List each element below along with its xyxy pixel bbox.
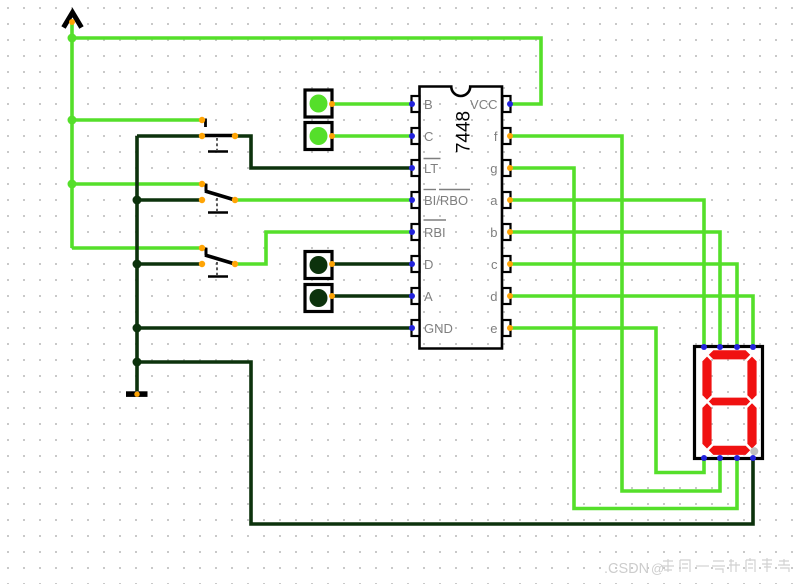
wire: net e from IC to display bottom pin 1 <box>511 328 704 473</box>
IC U1 pin box: pin c <box>503 256 511 272</box>
IC U1 pin box: pin b <box>503 224 511 240</box>
logic probe D (state 0) <box>305 252 335 279</box>
wire: probe C to pin C <box>332 134 410 138</box>
IC U1 pin label RBI with overline <box>424 220 447 240</box>
7-segment display DS1 body <box>695 347 763 459</box>
display segment a <box>709 350 750 359</box>
IC U1 pin state dot: D (blue) <box>409 261 415 267</box>
junction: power net at y=120 <box>68 116 77 125</box>
display pin dot bottom 3 <box>734 455 740 461</box>
IC U1 pin box: pin a <box>503 192 511 208</box>
svg-text:a: a <box>490 193 498 208</box>
svg-text:e: e <box>490 321 497 336</box>
IC U1 pin box: pin g <box>503 160 511 176</box>
logic probe A (state 0) <box>305 285 335 312</box>
IC U1 pin state dot: RBI (blue) <box>409 229 415 235</box>
svg-text:@: @ <box>651 561 664 576</box>
wire: SW2 pole to BI/RBO pin <box>235 198 410 202</box>
IC U1 pin state dot: A (blue) <box>409 293 415 299</box>
wire: ground net to SW2 bottom throw <box>137 198 202 202</box>
IC U1 value label 7448 (rotated) <box>454 111 475 153</box>
svg-text:B: B <box>424 97 433 112</box>
IC U1 pin box: pin D <box>412 256 420 272</box>
junction: ground net at SW2 <box>133 196 142 205</box>
IC U1 pin box: pin RBI <box>412 224 420 240</box>
watermark text CSDN <box>604 561 664 577</box>
IC U1 pin box: pin BI/RBO <box>412 192 420 208</box>
wire: power net vertical from arrow down left side <box>70 22 74 248</box>
wire: net b from IC to display top pin 2 <box>511 232 720 347</box>
display pin dot bottom 2 <box>717 455 723 461</box>
junction: power net at y=184 <box>68 180 77 189</box>
IC U1 pin state dot: BI/RBO (blue) <box>409 197 415 203</box>
svg-text:RBI: RBI <box>424 225 446 240</box>
svg-text:d: d <box>490 289 497 304</box>
wire: power net branch to SW2 top throw <box>72 182 202 186</box>
svg-text:VCC: VCC <box>470 97 497 112</box>
IC U1 pin label LT with overline <box>424 159 441 177</box>
IC U1 pin state dot: c (orange) <box>507 261 513 267</box>
svg-text:7448: 7448 <box>454 111 475 153</box>
svg-text:c: c <box>491 257 498 272</box>
logic probe B (state 1) <box>305 90 335 117</box>
wire: ground net vertical <box>135 136 139 391</box>
watermark fake hanzi glyphs <box>661 558 790 573</box>
IC U1 pin state dot: f (orange) <box>507 133 513 139</box>
junction: ground net at SW3 <box>133 260 142 269</box>
IC U1 pin state dot: b (orange) <box>507 229 513 235</box>
power arrow terminal dot <box>69 19 75 25</box>
IC U1 pin box: pin A <box>412 288 420 304</box>
svg-text:g: g <box>490 161 497 176</box>
wire: ground net branch to display common cathode <box>137 362 753 524</box>
svg-text:f: f <box>494 129 498 144</box>
IC U1 pin box: pin e <box>503 320 511 336</box>
IC U1 pin state dot: g (orange) <box>507 165 513 171</box>
IC U1 pin state dot: B (blue) <box>409 101 415 107</box>
svg-text:BI/RBO: BI/RBO <box>424 193 468 208</box>
switch SW1 <box>199 117 238 152</box>
svg-text:C: C <box>424 129 433 144</box>
svg-text:.CSDN: .CSDN <box>604 561 649 577</box>
IC U1 pin state dot: VCC (blue) <box>507 101 513 107</box>
wire: ground net to IC GND pin <box>137 326 410 330</box>
display segment f <box>702 357 711 400</box>
IC U1 pin box: pin d <box>503 288 511 304</box>
wire: power net branch to SW1 top throw <box>72 118 202 122</box>
svg-text:D: D <box>424 257 433 272</box>
wire: probe D to pin D (dark) <box>332 262 410 266</box>
display decimal point (off, gray) <box>750 447 758 455</box>
IC U1 pin state dot: e (orange) <box>507 325 513 331</box>
IC U1 pin state dot: LT (blue) <box>409 165 415 171</box>
wire: probe B to pin B <box>332 102 410 106</box>
ground symbol <box>126 391 148 397</box>
op-amp substitute: IC U1 7448 body <box>420 87 503 349</box>
wire: net g from IC to display bottom pin 3 <box>511 168 737 509</box>
wire: ground net to SW3 bottom throw <box>137 262 202 266</box>
switch SW3 <box>199 245 238 277</box>
IC U1 pin state dot: GND (blue) <box>409 325 415 331</box>
display segment d <box>709 446 750 455</box>
display pin dot top 2 <box>717 344 723 350</box>
logic probe C (state 1) <box>305 123 335 150</box>
IC U1 pin box: pin C <box>412 128 420 144</box>
junction: ground net at display branch <box>133 358 142 367</box>
svg-text:A: A <box>424 289 433 304</box>
IC U1 pin state dot: a (orange) <box>507 197 513 203</box>
wire: SW1 pole to LT pin (dark) <box>235 136 410 168</box>
switch SW2 <box>199 181 238 213</box>
wire: power net top horizontal to VCC <box>72 38 541 104</box>
display segment g <box>709 398 750 406</box>
IC U1 pin box: pin VCC <box>503 96 511 112</box>
display pin dot bottom 1 <box>701 455 707 461</box>
svg-text:GND: GND <box>424 321 453 336</box>
wire: power net branch to SW3 top throw <box>72 246 202 250</box>
display pin dot top 4 <box>750 344 756 350</box>
display pin dot bottom 4 <box>750 455 756 461</box>
display segment b <box>747 357 756 400</box>
display pin dot top 3 <box>734 344 740 350</box>
IC U1 pin state dot: d (orange) <box>507 293 513 299</box>
display segment e <box>702 403 711 448</box>
IC U1 pin label BI/RBO with overlines <box>424 190 471 209</box>
wire: net a from IC to display top pin 1 <box>511 200 704 347</box>
display segment c <box>747 403 756 448</box>
wire: net f from IC to display bottom pin 2 <box>511 136 720 491</box>
junction: ground net at GND pin wire <box>133 324 142 333</box>
wire: ground net to SW1 bottom throw <box>137 134 202 138</box>
power arrow symbol <box>64 13 82 28</box>
display pin dot top 1 <box>701 344 707 350</box>
junction: power net at y=38 <box>68 34 77 43</box>
wire: net d from IC to display top pin 4 <box>511 296 753 347</box>
svg-text:b: b <box>490 225 497 240</box>
IC U1 pin box: pin GND <box>412 320 420 336</box>
IC U1 pin box: pin f <box>503 128 511 144</box>
IC U1 pin state dot: C (blue) <box>409 133 415 139</box>
wire: net c from IC to display top pin 3 <box>511 264 737 347</box>
wire: probe A to pin A (dark) <box>332 294 410 298</box>
wire: SW3 pole to RBI pin <box>235 232 410 264</box>
ground terminal dot <box>134 392 139 397</box>
IC U1 pin box: pin LT <box>412 160 420 176</box>
svg-text:LT: LT <box>424 161 438 176</box>
IC U1 pin box: pin B <box>412 96 420 112</box>
